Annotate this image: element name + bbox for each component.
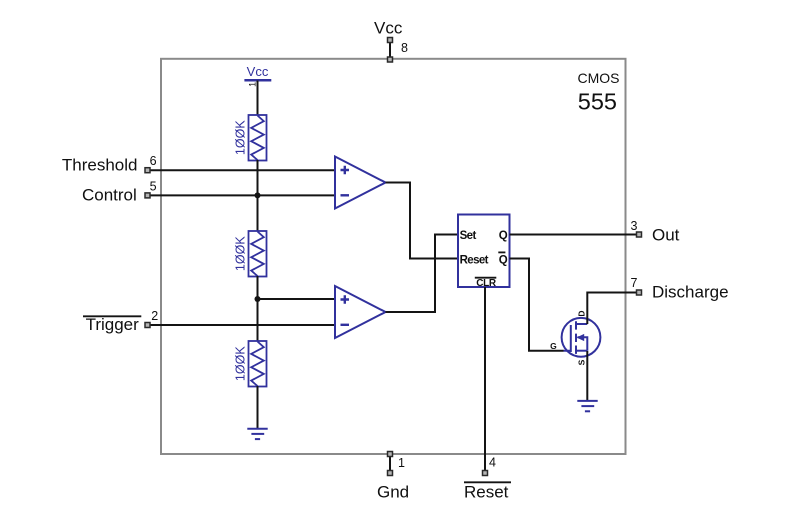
resistor R1 100K	[249, 115, 267, 161]
svg-text:G: G	[550, 341, 557, 351]
svg-text:8: 8	[401, 41, 408, 55]
pin endpoint square (147.5,195.4)	[145, 193, 150, 198]
overline for Qbar	[498, 251, 505, 253]
svg-text:4: 4	[489, 456, 496, 470]
svg-text:Q: Q	[499, 230, 508, 242]
ground symbol (divider)	[247, 429, 267, 439]
svg-text:1: 1	[398, 456, 405, 470]
wire latch CLR to Reset pin 4	[484, 287, 486, 473]
op-amp comparator U2 (threshold)	[335, 157, 386, 209]
svg-text:2: 2	[151, 309, 158, 323]
op-amp comparator U3 (trigger)	[335, 286, 386, 338]
svg-text:1ØØK: 1ØØK	[234, 236, 248, 271]
svg-text:5: 5	[150, 179, 157, 193]
channel dashes	[575, 321, 577, 354]
svg-text:Vcc: Vcc	[247, 64, 269, 79]
pin endpoint square (390,454)	[388, 452, 393, 457]
wire MOSFET source to ground	[586, 351, 588, 401]
svg-text:Out: Out	[652, 226, 680, 245]
overline for Trigger	[83, 315, 141, 317]
ground symbol (MOSFET source)	[577, 401, 597, 411]
wire Trigger pin2 to comparator -	[150, 324, 335, 326]
svg-text:3: 3	[631, 219, 638, 233]
svg-text:6: 6	[150, 154, 157, 168]
resistor R3 100K	[249, 341, 267, 387]
svg-text:D: D	[577, 310, 587, 316]
wire pin 1 stub	[389, 454, 391, 473]
junction dot control / divider node	[255, 192, 261, 198]
pin endpoint square (639,292.5)	[637, 290, 642, 295]
svg-text:Q: Q	[499, 255, 508, 267]
svg-text:Gnd: Gnd	[377, 483, 409, 502]
wire Threshold pin6 to comparator +	[150, 169, 335, 171]
transistor Q1 discharge MOSFET	[562, 318, 601, 357]
IC outline box U1 CMOS 555	[161, 59, 626, 454]
wire pin 8 stub	[389, 40, 391, 60]
svg-text:Reset: Reset	[460, 255, 489, 267]
wire Control pin5 to comparator -	[150, 194, 335, 196]
pin endpoint square (485,473)	[483, 471, 488, 476]
flip-flop latch U4 box	[458, 215, 510, 288]
drain lead	[576, 323, 587, 325]
svg-text:555: 555	[578, 89, 617, 115]
svg-text:1ØØK: 1ØØK	[234, 346, 248, 381]
wire MOSFET drain to Discharge pin 7	[587, 293, 639, 325]
svg-text:Trigger: Trigger	[86, 315, 140, 334]
wire comparator U2 output to latch Reset	[386, 183, 459, 259]
svg-text:CLR: CLR	[476, 278, 497, 289]
wire Vcc symbol to R1	[257, 81, 259, 116]
wire R3 to ground	[257, 386, 259, 429]
source lead	[576, 350, 587, 352]
wire latch Q to Out pin 3	[510, 234, 640, 236]
svg-text:Vcc: Vcc	[374, 19, 403, 38]
pin endpoint square (639,234.5)	[637, 232, 642, 237]
wire divider mid node to comparator2 +	[258, 298, 336, 300]
svg-text:Set: Set	[460, 230, 477, 242]
overline for Reset	[464, 481, 511, 483]
gate lead and gate bar	[564, 325, 571, 352]
svg-text:Threshold: Threshold	[62, 156, 138, 175]
wire latch Qbar to MOSFET gate	[510, 259, 564, 351]
junction dot divider node 1/3Vcc	[255, 296, 261, 302]
svg-text:S: S	[577, 359, 587, 365]
resistor R2 100K	[249, 231, 267, 277]
bulk lead with arrow	[578, 337, 588, 350]
svg-text:1: 1	[247, 82, 257, 87]
svg-text:Discharge: Discharge	[652, 283, 729, 302]
wire comparator U3 output to latch Set	[386, 235, 459, 313]
pin endpoint square (147.5,170)	[145, 168, 150, 173]
pin endpoint square (147.5,325)	[145, 323, 150, 328]
pin endpoint square (390,59.5)	[388, 57, 393, 62]
svg-text:Reset: Reset	[464, 483, 509, 502]
svg-text:7: 7	[631, 276, 638, 290]
wire R2 to R3	[257, 276, 259, 342]
pin endpoint square (390,40)	[388, 38, 393, 43]
svg-text:CMOS: CMOS	[578, 70, 620, 86]
svg-text:Control: Control	[82, 186, 137, 205]
overline for CLR	[475, 277, 497, 279]
wire R1 to R2	[257, 160, 259, 232]
pin endpoint square (390,473)	[388, 471, 393, 476]
svg-text:1ØØK: 1ØØK	[234, 120, 248, 155]
power symbol Vcc (internal)	[244, 64, 271, 87]
